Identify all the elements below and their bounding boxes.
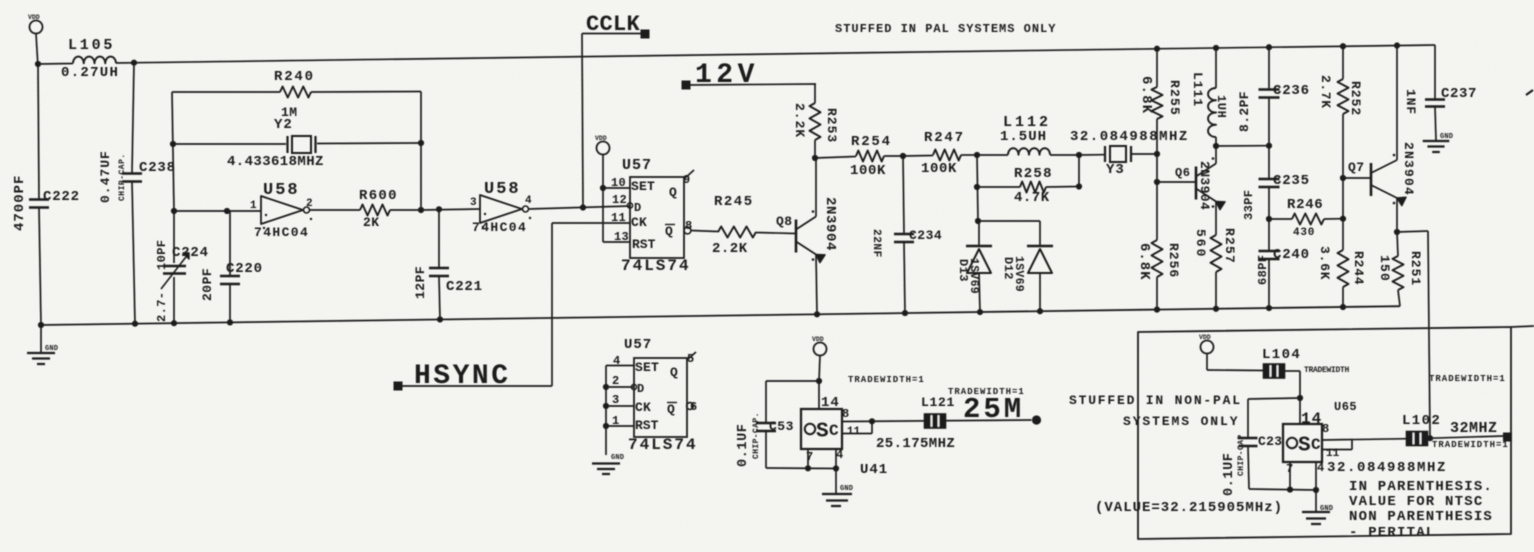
svg-text:33PF: 33PF <box>1242 190 1256 220</box>
svg-text:R258: R258 <box>1014 166 1053 182</box>
svg-text:100K: 100K <box>921 161 957 177</box>
svg-text:GND: GND <box>840 485 853 493</box>
VDD symbol non-PAL box <box>1201 341 1214 354</box>
svg-text:L111: L111 <box>1190 72 1205 107</box>
wire R240 left vertical <box>172 92 174 211</box>
svg-text:R251: R251 <box>1408 251 1423 286</box>
node C221 junction <box>436 206 442 212</box>
node R600 right junction <box>418 207 424 213</box>
svg-text:Q: Q <box>670 365 678 380</box>
svg-text:R253: R253 <box>824 108 839 143</box>
svg-text:2N3904: 2N3904 <box>1401 142 1416 196</box>
svg-text:TRADEWIDTH=1: TRADEWIDTH=1 <box>848 375 925 385</box>
svg-text:CK: CK <box>631 215 647 230</box>
svg-text:GND: GND <box>611 454 624 462</box>
svg-text:R244: R244 <box>1351 251 1366 285</box>
svg-text:11: 11 <box>847 426 861 438</box>
svg-text:U57: U57 <box>622 157 652 174</box>
wire U57B inputs tied to ground <box>606 365 634 367</box>
svg-text:Q: Q <box>669 185 677 200</box>
wire top VDD rail left segment <box>38 63 73 66</box>
svg-text:D: D <box>634 201 641 215</box>
svg-text:L121: L121 <box>921 395 955 410</box>
svg-text:2N3904: 2N3904 <box>1197 161 1212 210</box>
svg-text:L104: L104 <box>1262 347 1301 363</box>
svg-text:VALUE FOR NTSC: VALUE FOR NTSC <box>1349 494 1483 510</box>
node C220 junction <box>224 208 230 214</box>
capacitor C240 68PF <box>1268 219 1270 250</box>
resistor R253 2.2K <box>810 103 821 140</box>
wire CK from HSYNC <box>552 222 630 224</box>
terminal 32MHZ <box>1503 433 1512 442</box>
resistor R254 100K <box>856 151 884 162</box>
svg-text:U41: U41 <box>860 462 888 478</box>
scan speck right edge <box>1526 90 1533 95</box>
svg-text:C23: C23 <box>1258 434 1282 449</box>
VDD symbol U57 <box>597 142 610 155</box>
svg-text:CK: CK <box>635 400 651 415</box>
svg-text:32.084988MHZ: 32.084988MHZ <box>1327 460 1447 476</box>
svg-text:CHIP-CAP: CHIP-CAP <box>1237 434 1246 476</box>
svg-text:C237: C237 <box>1441 86 1477 102</box>
svg-text:SET: SET <box>635 360 659 375</box>
varactor D13 1SV69 <box>978 221 980 246</box>
svg-text:3: 3 <box>470 197 477 209</box>
node CCLK junction <box>580 204 586 210</box>
svg-text:(VALUE=32.215905MHz): (VALUE=32.215905MHz) <box>1095 500 1283 516</box>
svg-text:12: 12 <box>612 193 627 207</box>
svg-text:14: 14 <box>1301 410 1322 428</box>
svg-text:2N3904: 2N3904 <box>822 197 838 251</box>
svg-text:Q7: Q7 <box>1348 160 1365 175</box>
box stuffed in non-PAL systems <box>1138 327 1511 539</box>
svg-text:C240: C240 <box>1273 247 1310 263</box>
svg-text:560: 560 <box>1193 229 1208 258</box>
svg-text:4.7K: 4.7K <box>1014 190 1050 206</box>
svg-text:R252: R252 <box>1348 81 1363 116</box>
node Q7 output junction <box>1427 435 1433 441</box>
svg-text:U58: U58 <box>484 180 521 199</box>
svg-text:32.084988MHZ: 32.084988MHZ <box>1070 129 1189 145</box>
node Y2 left junction <box>170 141 176 147</box>
ground symbol C237 <box>1423 140 1450 142</box>
resistor R257 560 <box>1215 202 1217 236</box>
svg-text:7: 7 <box>806 450 813 464</box>
flip-flop U57 74LS74 top <box>630 177 684 258</box>
svg-text:IN PARENTHESIS.: IN PARENTHESIS. <box>1349 479 1493 495</box>
svg-text:6.8K: 6.8K <box>1136 243 1152 281</box>
svg-text:12V: 12V <box>695 60 759 91</box>
ground symbol U65 <box>1315 490 1317 511</box>
svg-text:25.175MHZ: 25.175MHZ <box>876 436 955 452</box>
inductor L111 1UH <box>1215 146 1217 164</box>
wire C53 bottom to OSC pins <box>766 467 836 470</box>
svg-text:TRADEWIDTH=1: TRADEWIDTH=1 <box>948 387 1025 397</box>
node U58 input junction <box>171 208 177 214</box>
svg-text:STUFFED IN NON-PAL: STUFFED IN NON-PAL <box>1069 393 1242 408</box>
svg-text:U65: U65 <box>1334 400 1357 414</box>
svg-text:VDD: VDD <box>812 336 824 343</box>
svg-text:1.5UH: 1.5UH <box>1000 129 1047 145</box>
svg-text:CHIP-CAP.: CHIP-CAP. <box>752 412 761 459</box>
svg-text:Y2: Y2 <box>274 117 293 133</box>
wire U41 pin11 loop <box>842 433 872 435</box>
svg-text:2K: 2K <box>363 215 380 230</box>
svg-text:8: 8 <box>1322 422 1329 436</box>
capacitor C235 33PF <box>1268 146 1270 178</box>
oscillator U41 25.175MHZ <box>818 381 820 409</box>
svg-text:74HC04: 74HC04 <box>472 220 527 235</box>
svg-text:VDD: VDD <box>595 135 607 142</box>
svg-text:R255: R255 <box>1167 80 1182 116</box>
U57 pin8 Qbar bubble <box>684 227 691 234</box>
ground symbol U57B <box>592 462 620 464</box>
ferrite bead L104 <box>1264 364 1285 378</box>
svg-text:U58: U58 <box>263 181 300 200</box>
svg-text:3: 3 <box>612 393 619 407</box>
varactor D12 1SV69 <box>1039 221 1041 246</box>
transistor Q6 2N3904 <box>1157 181 1196 183</box>
svg-text:4: 4 <box>525 195 532 207</box>
svg-text:Q6: Q6 <box>1175 166 1190 180</box>
svg-text:1UH: 1UH <box>1214 95 1228 118</box>
U57 pin9 Q stub <box>684 170 694 179</box>
VDD power symbol top-left <box>30 21 43 34</box>
svg-text:Q: Q <box>665 224 673 239</box>
svg-text:GND: GND <box>1320 505 1333 513</box>
terminal 25M output <box>1032 415 1041 424</box>
terminal 12V <box>682 81 691 90</box>
node Q7 base junction <box>1340 175 1346 181</box>
resistor R240 1M feedback <box>172 91 280 93</box>
resistor R258 4.7K parallel <box>977 155 978 221</box>
svg-text:C234: C234 <box>909 228 942 243</box>
capacitor C236 8.2PF <box>1266 44 1272 50</box>
svg-text:L102: L102 <box>1402 413 1441 429</box>
resistor R600 2K <box>310 209 361 211</box>
wire U65 pin11 loop <box>1322 449 1352 451</box>
svg-text:74LS74: 74LS74 <box>621 257 691 275</box>
wire VDD loop to C53 <box>766 380 819 382</box>
svg-text:R256: R256 <box>1166 243 1181 278</box>
svg-text:22NF: 22NF <box>870 229 882 258</box>
svg-text:C224: C224 <box>172 245 209 261</box>
svg-text:C220: C220 <box>226 261 263 277</box>
inductor L105 0.27UH <box>73 57 116 64</box>
ferrite bead L121 <box>925 414 946 428</box>
svg-text:74HC04: 74HC04 <box>254 225 309 240</box>
trimmer capacitor C224 2.7-10PF <box>173 211 175 263</box>
svg-text:4: 4 <box>1317 461 1324 475</box>
inverter U58A 74HC04 pins 1-2 <box>261 196 303 224</box>
wire to U58 pin3 <box>421 209 480 210</box>
node VCO control junction <box>974 152 980 158</box>
svg-text:8: 8 <box>842 407 849 421</box>
svg-text:1: 1 <box>250 200 257 212</box>
svg-text:1SV69: 1SV69 <box>1012 256 1025 292</box>
wire C239 bottom to U65 ground <box>1249 489 1316 490</box>
svg-text:L105: L105 <box>68 37 115 54</box>
svg-text:SYSTEMS ONLY: SYSTEMS ONLY <box>1123 414 1239 429</box>
capacitor C238 0.47UF chip cap <box>132 63 134 173</box>
wire U65 output pin8 <box>1322 439 1408 440</box>
inverter U58B 74HC04 pins 3-4 <box>480 195 522 223</box>
wire L102 to 32MHZ terminal <box>1428 436 1504 438</box>
transistor Q8 2N3904 <box>795 220 798 253</box>
svg-text:0.1UF: 0.1UF <box>1222 452 1237 496</box>
crystal Y2 4.433618MHZ <box>173 143 286 145</box>
inductor L112 1.5UH <box>977 154 1008 156</box>
wire Q8 emitter to ground rail <box>816 255 817 315</box>
capacitor C221 12PF <box>438 209 440 267</box>
ground symbol U41 <box>835 469 837 494</box>
svg-text:U57: U57 <box>624 337 652 353</box>
wire U41 pin7 pin4 stubs <box>807 449 809 468</box>
oscillator U65 32.084988MHZ <box>1299 398 1301 424</box>
oscillator U41 circuit VDD <box>814 343 827 356</box>
svg-text:1SV69: 1SV69 <box>967 258 980 294</box>
wire R252 node to R244 <box>1342 178 1344 219</box>
svg-text:14: 14 <box>821 395 840 411</box>
svg-text:12PF: 12PF <box>413 266 428 299</box>
capacitor C220 20PF <box>227 210 230 212</box>
svg-text:R240: R240 <box>274 69 315 85</box>
svg-text:6.8K: 6.8K <box>1138 76 1154 114</box>
wire CCLK <box>582 33 645 35</box>
resistor R246 430 <box>1269 218 1292 220</box>
wire U41 output pin8 <box>842 420 1032 422</box>
wire branch to C239 <box>1248 398 1300 399</box>
node R246 left junction <box>1266 216 1272 222</box>
svg-text:100K: 100K <box>850 163 886 179</box>
svg-text:C238: C238 <box>139 160 176 176</box>
U57B pin5 Q stub <box>687 352 696 360</box>
ground symbol bottom-left <box>40 325 42 352</box>
svg-text:TRADEWIDTH=1: TRADEWIDTH=1 <box>1432 440 1509 450</box>
svg-text:R254: R254 <box>851 134 892 150</box>
capacitor C237 1NF <box>1434 45 1436 99</box>
wire top VDD rail to C237 <box>116 45 1435 63</box>
svg-text:VDD: VDD <box>1199 334 1211 341</box>
node top rail left junction <box>35 61 41 67</box>
svg-text:GND: GND <box>1440 133 1453 141</box>
svg-text:R257: R257 <box>1222 228 1237 264</box>
capacitor C222 4700PF <box>38 64 39 199</box>
ground rail bottom <box>41 306 1400 325</box>
node C238 top junction <box>131 60 137 66</box>
svg-text:- PERITAL: - PERITAL <box>1349 525 1435 541</box>
resistor R252 2.7K <box>1340 43 1346 49</box>
capacitor C239 0.1UF chip cap <box>1239 437 1258 439</box>
resistor R251 150 <box>1393 256 1404 290</box>
svg-text:VDD: VDD <box>28 14 40 21</box>
wire varactor bus <box>975 218 981 224</box>
capacitor C234 22NF <box>903 156 904 233</box>
flip-flop U57 74LS74 bottom <box>634 358 687 437</box>
svg-text:4: 4 <box>836 448 843 462</box>
resistor R255 6.8K <box>1154 46 1160 52</box>
node L112 right junction <box>1076 152 1082 158</box>
terminal CCLK <box>641 30 650 39</box>
svg-text:C: C <box>829 422 839 440</box>
svg-text:R600: R600 <box>359 188 398 204</box>
svg-text:74LS74: 74LS74 <box>628 436 698 454</box>
svg-text:NON PARENTHESIS: NON PARENTHESIS <box>1349 509 1493 525</box>
svg-text:Q8: Q8 <box>776 214 793 229</box>
svg-text:4.433618MHZ: 4.433618MHZ <box>227 154 324 170</box>
node Y2 right junction <box>418 140 424 146</box>
U57B pin6 Qbar bubble <box>687 403 694 410</box>
wire R240 right vertical <box>420 92 422 211</box>
node R253 bottom junction <box>812 155 818 161</box>
svg-text:2: 2 <box>306 198 313 210</box>
svg-text:TRADEWIDTH: TRADEWIDTH <box>1304 366 1350 375</box>
svg-text:C222: C222 <box>43 189 80 205</box>
wire to U58 pin1 <box>174 210 261 212</box>
wire VDD to SET and RST <box>602 155 604 189</box>
svg-text:10PF: 10PF <box>155 240 169 270</box>
svg-text:3.6K: 3.6K <box>1317 246 1332 280</box>
wire U65 pin7 pin4 stubs <box>1289 462 1291 490</box>
svg-text:C: C <box>1311 436 1321 454</box>
wire VDD stem to top rail <box>36 34 38 65</box>
svg-text:CHIP-CAP.: CHIP-CAP. <box>118 153 127 201</box>
resistor R245 2.2K <box>691 231 718 232</box>
svg-text:D: D <box>637 382 644 396</box>
svg-text:C221: C221 <box>446 279 483 295</box>
node ground rail left end <box>38 322 44 328</box>
svg-text:2.2K: 2.2K <box>792 103 807 138</box>
svg-text:20PF: 20PF <box>200 268 215 301</box>
wire Q7 collector to top rail <box>1396 46 1398 160</box>
svg-text:R246: R246 <box>1287 197 1323 213</box>
svg-text:4700PF: 4700PF <box>12 175 28 231</box>
svg-text:TRADEWIDTH=1: TRADEWIDTH=1 <box>1429 374 1506 384</box>
svg-text:RST: RST <box>632 237 656 252</box>
svg-text:8.2PF: 8.2PF <box>1237 91 1252 132</box>
svg-text:0.47UF: 0.47UF <box>98 150 113 203</box>
svg-text:Y3: Y3 <box>1106 162 1125 178</box>
svg-text:2.2K: 2.2K <box>712 241 748 257</box>
svg-text:R247: R247 <box>924 130 965 146</box>
svg-text:0.27UH: 0.27UH <box>61 65 119 81</box>
svg-text:GND: GND <box>45 345 58 353</box>
ferrite bead L102 <box>1407 432 1428 446</box>
wire VDD to L104 <box>1207 369 1264 372</box>
svg-text:430: 430 <box>1293 227 1315 239</box>
wire control line R253 to R254 <box>815 157 856 159</box>
resistor R256 6.8K <box>1152 240 1163 277</box>
node Y3 right junction <box>1154 151 1160 157</box>
svg-text:C236: C236 <box>1273 83 1310 99</box>
terminal HSYNC <box>394 382 403 391</box>
svg-text:2: 2 <box>612 374 619 388</box>
svg-text:HSYNC: HSYNC <box>414 361 511 392</box>
wire Q8 collector <box>815 158 817 217</box>
node C234 junction <box>900 153 906 159</box>
node Q6 base junction <box>1154 179 1160 185</box>
resistor R247 100K <box>903 155 933 158</box>
wire Q6 collector node to C236 <box>1216 145 1269 147</box>
svg-text:C53: C53 <box>769 419 794 434</box>
resistor R244 3.6K <box>1338 250 1349 287</box>
wire U58 pin4 to U57 D <box>529 206 631 209</box>
svg-text:SET: SET <box>631 179 655 194</box>
svg-text:2.7K: 2.7K <box>1318 75 1333 109</box>
wire L104 to U65 <box>1285 370 1301 372</box>
svg-text:2.7-: 2.7- <box>155 292 169 322</box>
svg-text:S: S <box>816 421 829 444</box>
svg-text:68PF: 68PF <box>1256 255 1270 285</box>
svg-text:STUFFED IN PAL SYSTEMS ONLY: STUFFED IN PAL SYSTEMS ONLY <box>835 22 1056 36</box>
wire Q7 emitter node <box>1396 198 1398 232</box>
crystal Y3 32.084988MHZ <box>1079 154 1104 156</box>
svg-text:25M: 25M <box>963 393 1024 426</box>
wire 12V <box>686 84 816 85</box>
svg-text:150: 150 <box>1377 255 1392 282</box>
svg-text:RST: RST <box>635 418 659 433</box>
svg-text:R245: R245 <box>714 194 754 210</box>
svg-text:C235: C235 <box>1273 173 1310 189</box>
capacitor C53 0.1UF chip cap <box>756 422 776 424</box>
svg-text:32MHZ: 32MHZ <box>1450 420 1498 437</box>
wire Q7 output to NON-PAL box <box>1397 231 1428 232</box>
svg-text:Q: Q <box>667 402 675 417</box>
transistor Q7 2N3904 <box>1343 177 1371 179</box>
svg-text:0.1UF: 0.1UF <box>736 423 751 467</box>
svg-text:S: S <box>1298 435 1311 458</box>
svg-text:1NF: 1NF <box>1403 89 1418 115</box>
